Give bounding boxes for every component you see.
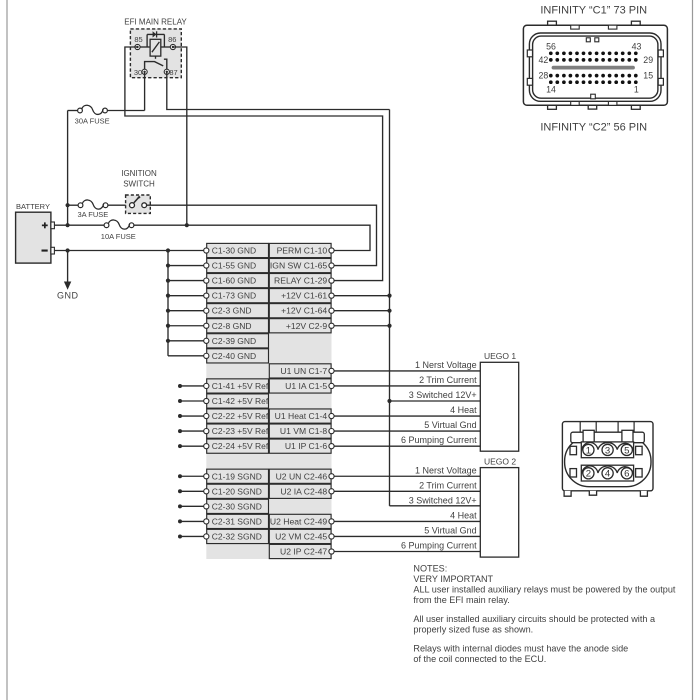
wire UEGO row 20: [334, 535, 480, 537]
svg-text:U2 Heat C2-49: U2 Heat C2-49: [270, 516, 328, 526]
wire battery bus to 30A fuse: [68, 111, 78, 226]
svg-text:U1 UN C1-7: U1 UN C1-7: [280, 366, 327, 376]
svg-text:29: 29: [643, 55, 653, 65]
relay pin 86: [161, 35, 177, 50]
svg-text:ALL user installed auxiliary r: ALL user installed auxiliary relays must…: [413, 584, 675, 594]
svg-text:U2 IP C2-47: U2 IP C2-47: [280, 547, 327, 557]
wire gnd stub row 2: [168, 265, 204, 267]
battery BT1: [16, 202, 55, 263]
UEGO pin row 2-4-6: [581, 465, 633, 481]
pin cell PERM C1-10: [269, 243, 334, 257]
wire UEGO row 21: [334, 551, 480, 553]
svg-text:2 Trim Current: 2 Trim Current: [419, 480, 477, 490]
svg-text:86: 86: [168, 35, 176, 44]
wire +5V/SGND stub row 12: [180, 415, 204, 417]
pin cell U2 UN C2-46: [269, 469, 334, 483]
relay coil: [150, 39, 161, 59]
svg-text:3 Switched 12V+: 3 Switched 12V+: [409, 390, 477, 400]
pin cell U1 VM C1-8: [269, 424, 334, 438]
junction relay86/10A: [185, 223, 189, 227]
svg-text:10A FUSE: 10A FUSE: [101, 232, 136, 241]
wire +5V/SGND stub row 14: [180, 445, 204, 447]
wire +12V bus to UEGO1 pin 3: [390, 400, 481, 402]
pin cell C2-31 SGND: [204, 514, 269, 528]
relay pin 30: [134, 68, 147, 77]
svg-text:Relays with internal diodes mu: Relays with internal diodes must have th…: [413, 643, 628, 653]
wire +5V/SGND stub row 20: [180, 535, 204, 537]
wire +12V bus to UEGO2 pin 3: [390, 505, 481, 507]
svg-text:SWITCH: SWITCH: [123, 180, 155, 189]
svg-text:BATTERY: BATTERY: [16, 202, 50, 211]
svg-text:All user installed auxiliary c: All user installed auxiliary circuits sh…: [413, 614, 656, 624]
svg-text:+12V C1-64: +12V C1-64: [281, 306, 327, 316]
svg-text:30A FUSE: 30A FUSE: [75, 117, 110, 126]
svg-text:INFINITY “C1” 73 PIN: INFINITY “C1” 73 PIN: [540, 5, 647, 17]
wire gnd stub row 4: [168, 295, 204, 297]
pin cell C1-42 +5V Ref: [204, 394, 269, 408]
connector UEGO 1: [480, 351, 518, 451]
wire UEGO row 17: [334, 490, 480, 492]
relay switch: [145, 59, 167, 72]
wire gnd stub row 7: [168, 340, 204, 342]
pin cell C2-8 GND: [204, 319, 269, 333]
svg-text:IGN SW C1-65: IGN SW C1-65: [270, 261, 328, 271]
wire UEGO row 16: [334, 475, 480, 477]
junction gnd row 6: [166, 324, 170, 328]
wire UEGO row 14: [334, 445, 480, 447]
wire +5V/SGND stub row 13: [180, 430, 204, 432]
svg-text:properly sized fuse as shown.: properly sized fuse as shown.: [413, 624, 533, 634]
svg-text:6 Pumping Current: 6 Pumping Current: [401, 541, 477, 551]
wire: [6, 0, 8, 700]
relay diode: [147, 31, 164, 47]
svg-text:C1-60 GND: C1-60 GND: [212, 276, 256, 286]
wire 30A fuse to relay pin 30: [107, 72, 144, 111]
svg-text:of the coil connected to the E: of the coil connected to the ECU.: [413, 654, 546, 664]
wire relay pin 85 to RELAY C1-29: [125, 47, 383, 281]
svg-text:3: 3: [605, 445, 610, 456]
wire +5V/SGND stub row 11: [180, 400, 204, 402]
svg-text:C1-42 +5V Ref: C1-42 +5V Ref: [212, 396, 269, 406]
wire +12V bus: [389, 110, 391, 506]
relay K1 EFI MAIN RELAY: [124, 18, 187, 78]
relay pin 87: [164, 68, 177, 77]
connector pins: [549, 51, 638, 84]
connector UEGO 6-pin: [562, 422, 653, 497]
svg-text:C2-3 GND: C2-3 GND: [212, 306, 252, 316]
wire UEGO row 19: [334, 520, 480, 522]
svg-text:C1-41 +5V Ref: C1-41 +5V Ref: [212, 381, 269, 391]
notes text: [413, 564, 675, 664]
junction +12V bus row 6: [387, 324, 391, 328]
wire 10A fuse to PERM C1-10: [134, 225, 370, 250]
wire 3A fuse to ignition switch: [108, 204, 129, 206]
wire +5V/SGND stub row 17: [180, 490, 204, 492]
svg-text:15: 15: [643, 70, 653, 80]
svg-text:C2-8 GND: C2-8 GND: [212, 321, 252, 331]
pin cell C2-32 SGND: [204, 529, 269, 543]
junction gnd row 7: [166, 339, 170, 343]
svg-text:6: 6: [624, 469, 629, 480]
svg-text:U1 IA C1-5: U1 IA C1-5: [285, 381, 327, 391]
ECU pin table background: [206, 243, 331, 559]
pin cell U2 Heat C2-49: [269, 514, 334, 528]
junction gnd row 3: [166, 279, 170, 283]
svg-text:+12V C2-9: +12V C2-9: [286, 321, 328, 331]
svg-text:NOTES:: NOTES:: [413, 564, 447, 574]
wire: [692, 0, 694, 700]
pin cell C1-19 SGND: [204, 469, 269, 483]
wire GND bus: [167, 251, 169, 356]
svg-text:+12V C1-61: +12V C1-61: [281, 291, 327, 301]
pin cell C1-30 GND: [204, 243, 269, 257]
svg-text:PERM C1-10: PERM C1-10: [277, 246, 328, 256]
pin cell U2 IA C2-48: [269, 484, 334, 498]
pin cell RELAY C1-29: [269, 274, 334, 288]
wire +5V/SGND stub row 16: [180, 475, 204, 477]
svg-text:U1 VM C1-8: U1 VM C1-8: [280, 426, 327, 436]
junction +12V bus UEGO1: [387, 399, 391, 403]
pin cell U1 Heat C1-4: [269, 409, 334, 423]
pin cell U1 IA C1-5: [269, 379, 334, 393]
pin cell C1-20 SGND: [204, 484, 269, 498]
svg-text:87: 87: [169, 68, 177, 77]
pin cell +12V C1-61: [269, 289, 334, 303]
junction battery+/bus: [66, 223, 70, 227]
pin cell IGN SW C1-65: [269, 258, 334, 272]
wire gnd stub row 5: [168, 310, 204, 312]
node stub row 13: [178, 429, 182, 433]
pin cell U2 IP C2-47: [269, 544, 334, 558]
pin cell C1-41 +5V Ref: [204, 379, 269, 393]
svg-text:30: 30: [134, 68, 142, 77]
svg-text:U1 IP C1-6: U1 IP C1-6: [285, 441, 328, 451]
svg-text:UEGO 1: UEGO 1: [484, 351, 516, 361]
wire battery - to C1-30 GND: [54, 250, 203, 252]
svg-text:VERY IMPORTANT: VERY IMPORTANT: [413, 574, 493, 584]
pin cell C2-23 +5V Ref: [204, 424, 269, 438]
pin cell +12V C2-9: [269, 319, 334, 333]
wire 3A fuse feed: [68, 204, 79, 206]
wire +5V/SGND stub row 19: [180, 520, 204, 522]
wire battery +: [54, 224, 104, 226]
pin cell U1 IP C1-6: [269, 439, 334, 453]
svg-text:U2 UN C2-46: U2 UN C2-46: [276, 471, 328, 481]
svg-text:C1-19 SGND: C1-19 SGND: [212, 471, 262, 481]
UEGO pin row 1-3-5: [581, 442, 633, 458]
svg-text:1: 1: [634, 85, 639, 95]
svg-text:INFINITY “C2” 56 PIN: INFINITY “C2” 56 PIN: [540, 121, 647, 133]
wire +12V row 6: [334, 325, 389, 327]
junction battery-/gnd drop: [66, 248, 70, 252]
wire +5V/SGND stub row 18: [180, 505, 204, 507]
fuse 30A FUSE: [75, 105, 110, 125]
svg-text:from the EFI main relay.: from the EFI main relay.: [413, 595, 509, 605]
junction battery bus / 3A: [66, 203, 70, 207]
svg-text:C1-73 GND: C1-73 GND: [212, 291, 256, 301]
svg-text:UEGO 2: UEGO 2: [484, 457, 516, 467]
svg-text:28: 28: [539, 70, 549, 80]
svg-text:4 Heat: 4 Heat: [450, 405, 477, 415]
wire UEGO row 10: [334, 385, 480, 387]
wire +12V row 4: [334, 295, 389, 297]
junction gnd row 5: [166, 309, 170, 313]
svg-text:6 Pumping Current: 6 Pumping Current: [401, 435, 477, 445]
ground GND: [57, 251, 79, 301]
svg-text:EFI MAIN RELAY: EFI MAIN RELAY: [124, 18, 187, 27]
node stub row 10: [178, 384, 182, 388]
junction gnd row 2: [166, 263, 170, 267]
svg-text:2: 2: [586, 469, 591, 480]
wire UEGO row 9: [334, 370, 480, 372]
svg-text:RELAY C1-29: RELAY C1-29: [274, 276, 327, 286]
wire UEGO row 13: [334, 430, 480, 432]
svg-text:U2 IA C2-48: U2 IA C2-48: [280, 486, 327, 496]
pin cell C2-3 GND: [204, 304, 269, 318]
connector slot bar: [554, 66, 634, 70]
relay pin 85: [134, 35, 150, 50]
svg-text:C1-55 GND: C1-55 GND: [212, 261, 256, 271]
node stub row 16: [178, 474, 182, 478]
pin cell C2-39 GND: [204, 334, 269, 348]
pin cell C2-30 SGND: [204, 499, 269, 513]
svg-text:5 Virtual Gnd: 5 Virtual Gnd: [424, 525, 476, 535]
svg-text:5 Virtual Gnd: 5 Virtual Gnd: [424, 420, 476, 430]
svg-text:85: 85: [134, 35, 142, 44]
svg-text:C2-31 SGND: C2-31 SGND: [212, 516, 262, 526]
pin cell C2-22 +5V Ref: [204, 409, 269, 423]
junction gnd row 4: [166, 294, 170, 298]
svg-text:14: 14: [546, 85, 556, 95]
svg-text:GND: GND: [57, 291, 79, 301]
wire +12V row 5: [334, 310, 389, 312]
pin cell U1 UN C1-7: [269, 364, 334, 378]
svg-text:1: 1: [586, 445, 591, 456]
svg-text:1 Nerst Voltage: 1 Nerst Voltage: [415, 360, 477, 370]
pin cell C2-24 +5V Ref: [204, 439, 269, 453]
wire relay pin 86 to 10A fuse line: [173, 47, 187, 225]
svg-text:C2-40 GND: C2-40 GND: [212, 351, 256, 361]
svg-text:C2-23 +5V Ref: C2-23 +5V Ref: [212, 426, 269, 436]
junction +12V bus row 5: [387, 309, 391, 313]
connector UEGO 2: [480, 457, 518, 558]
switch IGNITION SWITCH: [121, 169, 157, 213]
svg-text:3 Switched 12V+: 3 Switched 12V+: [409, 495, 477, 505]
wire UEGO row 12: [334, 415, 480, 417]
wire gnd stub row 8: [168, 355, 204, 357]
wire relay pin 87 to +12V bus: [167, 72, 390, 110]
svg-text:C2-30 SGND: C2-30 SGND: [212, 501, 262, 511]
svg-text:4: 4: [605, 469, 611, 480]
svg-text:U2 VM C2-45: U2 VM C2-45: [275, 531, 327, 541]
fuse 10A FUSE: [101, 220, 136, 241]
svg-text:42: 42: [539, 55, 549, 65]
pin cell C1-55 GND: [204, 258, 269, 272]
svg-text:56: 56: [546, 41, 556, 51]
node stub row 17: [178, 489, 182, 493]
node stub row 11: [178, 399, 182, 403]
svg-text:4 Heat: 4 Heat: [450, 510, 477, 520]
svg-text:43: 43: [632, 41, 642, 51]
pin cell +12V C1-64: [269, 304, 334, 318]
svg-text:2 Trim Current: 2 Trim Current: [419, 375, 477, 385]
node stub row 20: [178, 534, 182, 538]
svg-text:3A FUSE: 3A FUSE: [77, 210, 108, 219]
fuse 3A FUSE: [77, 200, 108, 219]
svg-text:C2-32 SGND: C2-32 SGND: [212, 531, 262, 541]
svg-text:1 Nerst Voltage: 1 Nerst Voltage: [415, 465, 477, 475]
node stub row 12: [178, 414, 182, 418]
svg-text:C2-39 GND: C2-39 GND: [212, 336, 256, 346]
svg-text:U1 Heat C1-4: U1 Heat C1-4: [275, 411, 328, 421]
svg-text:C2-22 +5V Ref: C2-22 +5V Ref: [212, 411, 269, 421]
node stub row 19: [178, 519, 182, 523]
pin cell U2 VM C2-45: [269, 529, 334, 543]
wire gnd stub row 6: [168, 325, 204, 327]
junction +12V bus row 4: [387, 294, 391, 298]
wire gnd stub row 3: [168, 280, 204, 282]
pin cell C1-73 GND: [204, 289, 269, 303]
svg-text:5: 5: [624, 445, 629, 456]
node stub row 14: [178, 444, 182, 448]
pin cell C2-40 GND: [204, 349, 269, 363]
svg-text:IGNITION: IGNITION: [121, 169, 157, 178]
svg-text:C1-30 GND: C1-30 GND: [212, 246, 256, 256]
pin cell C1-60 GND: [204, 274, 269, 288]
wire ignition switch to IGN SW C1-65: [147, 205, 377, 265]
svg-text:C1-20 SGND: C1-20 SGND: [212, 486, 262, 496]
wire +5V/SGND stub row 10: [180, 385, 204, 387]
junction gnd bus top: [166, 248, 170, 252]
svg-text:C2-24 +5V Ref: C2-24 +5V Ref: [212, 441, 269, 451]
node stub row 18: [178, 504, 182, 508]
connector INFINITY body: [523, 21, 667, 109]
